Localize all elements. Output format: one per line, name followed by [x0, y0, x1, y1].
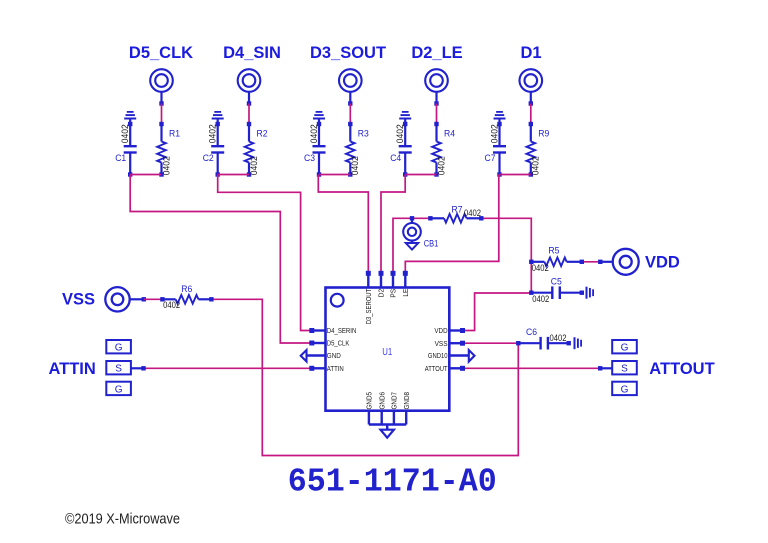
svg-text:G: G: [621, 343, 629, 354]
connector VDD: [598, 260, 602, 264]
resistor R9: [529, 122, 533, 126]
pin GND5 (U1 bottom): [368, 411, 370, 425]
svg-text:S: S: [621, 364, 628, 375]
svg-text:R1: R1: [169, 128, 180, 139]
svg-text:R7: R7: [452, 204, 463, 215]
svg-text:D3_SEROUT: D3_SEROUT: [364, 288, 373, 324]
wire VSS net loop: [211, 299, 518, 455]
wire D4_SIN to R2: [248, 104, 250, 125]
wire C2 to R2 junction: [218, 174, 249, 176]
svg-text:D4_SIN: D4_SIN: [223, 44, 281, 62]
capacitor C7: [498, 119, 500, 147]
svg-text:GND5: GND5: [365, 392, 374, 410]
svg-text:0402: 0402: [532, 263, 549, 273]
pad S (ATTOUT side): [612, 361, 637, 374]
wire U1 pin PS to R7: [393, 218, 430, 272]
ground symbol above C4: [399, 118, 411, 120]
svg-text:0402: 0402: [161, 156, 171, 175]
wire C3 to R3 junction: [319, 174, 350, 176]
pad S (ATTIN side): [106, 361, 131, 374]
IC U1 body: [326, 288, 450, 411]
resistor R5: [529, 260, 533, 264]
svg-text:C1: C1: [115, 152, 126, 163]
svg-text:0402: 0402: [489, 124, 499, 143]
wire net D4_SIN to U1 pin D4_SERIN: [218, 175, 311, 331]
wire D3_SOUT to R3: [349, 104, 351, 125]
resistor R7: [428, 216, 432, 220]
svg-text:GND8: GND8: [402, 392, 411, 410]
svg-text:C4: C4: [390, 152, 401, 163]
wire net D5_CLK to U1 pin D5_CLK: [130, 175, 311, 344]
svg-text:0402: 0402: [120, 124, 130, 143]
ground symbol above C2: [212, 118, 224, 120]
svg-text:PS: PS: [389, 289, 398, 298]
svg-text:GND6: GND6: [377, 392, 386, 410]
svg-text:ATTIN: ATTIN: [327, 364, 344, 373]
svg-text:D5_CLK: D5_CLK: [129, 44, 193, 62]
svg-text:ATTIN: ATTIN: [48, 360, 95, 378]
wire D2_LE to R4: [436, 104, 438, 125]
pin VDD (U1 right): [460, 328, 465, 333]
pin GND10 (U1 right, arrow): [449, 354, 469, 356]
svg-text:GND10: GND10: [428, 351, 448, 360]
resistor R6: [160, 297, 164, 301]
pin ATTOUT (U1 right): [460, 366, 465, 371]
svg-text:S: S: [115, 364, 122, 375]
pin ATTIN (U1 left): [309, 366, 314, 371]
svg-text:R2: R2: [257, 128, 268, 139]
svg-text:0402: 0402: [436, 156, 446, 175]
wire R5 to VDD connector: [582, 261, 601, 263]
svg-text:0402: 0402: [531, 156, 541, 175]
pad G (ATTOUT side): [612, 340, 637, 353]
wire net D1 to U1 pin LE: [405, 175, 499, 273]
svg-text:R9: R9: [538, 128, 549, 139]
svg-text:C2: C2: [203, 152, 214, 163]
svg-text:G: G: [115, 384, 123, 395]
pin D5_CLK (U1 left): [309, 341, 314, 346]
capacitor C5: [529, 291, 533, 295]
svg-text:ATTOUT: ATTOUT: [649, 360, 714, 378]
svg-text:VSS: VSS: [62, 291, 95, 309]
wire VSS to R6: [144, 298, 163, 300]
wire C7 to R9 junction: [500, 174, 531, 176]
svg-text:C6: C6: [526, 326, 537, 337]
svg-text:GND7: GND7: [390, 392, 399, 410]
capacitor C2: [217, 119, 219, 147]
svg-text:0402: 0402: [550, 333, 567, 343]
wire U1 pin VDD to R5/C5 node: [462, 293, 531, 331]
svg-text:G: G: [115, 343, 123, 354]
wire C1 to R1 junction: [130, 174, 161, 176]
lead ATTIN S pad: [131, 367, 144, 369]
wire net D2_LE to U1 pin D2: [381, 175, 405, 273]
pin PS (U1 top): [391, 271, 396, 276]
junction node VSS/C6: [516, 341, 520, 345]
wire R7 to R5/C5 node: [481, 218, 531, 292]
pin GND7 (U1 bottom): [393, 411, 395, 425]
svg-text:0402: 0402: [350, 156, 360, 175]
pad G (ATTIN side): [106, 382, 131, 395]
pin GND (U1 left, arrow): [307, 354, 326, 356]
svg-text:D5_CLK: D5_CLK: [327, 339, 350, 348]
svg-text:R4: R4: [444, 128, 455, 139]
capacitor C4: [404, 119, 406, 147]
svg-text:C3: C3: [304, 152, 315, 163]
svg-text:VDD: VDD: [645, 253, 680, 271]
svg-text:0402: 0402: [532, 294, 549, 304]
svg-text:©2019 X-Microwave: ©2019 X-Microwave: [65, 511, 180, 528]
resistor R3: [348, 122, 352, 126]
ground symbol above C1: [124, 118, 136, 120]
svg-text:D1: D1: [520, 44, 541, 62]
svg-text:651-1171-A0: 651-1171-A0: [288, 464, 497, 502]
pin GND8 (U1 bottom): [405, 411, 407, 425]
svg-text:D4_SERIN: D4_SERIN: [327, 326, 357, 335]
ground symbol below U1: [386, 425, 388, 430]
svg-text:C7: C7: [485, 152, 496, 163]
wire D1 to R9: [530, 104, 532, 125]
svg-text:U1: U1: [382, 347, 392, 358]
ground symbol above C7: [494, 118, 506, 120]
svg-text:D3_SOUT: D3_SOUT: [310, 44, 386, 62]
capacitor C3: [318, 119, 320, 147]
pin GND6 (U1 bottom): [381, 411, 383, 425]
lead ATTOUT S pad: [598, 366, 602, 370]
ground symbol above C3: [313, 118, 325, 120]
svg-text:0402: 0402: [464, 208, 481, 218]
resistor R2: [247, 122, 251, 126]
svg-text:G: G: [621, 384, 629, 395]
svg-text:D2: D2: [377, 289, 386, 298]
pad G (ATTIN side): [106, 340, 131, 353]
svg-text:CB1: CB1: [424, 238, 439, 249]
pin VSS (U1 right): [460, 341, 465, 346]
wire U1 pin ATTOUT to ATTOUT S pad: [462, 367, 600, 369]
ground symbol right of C5: [586, 287, 588, 299]
svg-text:VDD: VDD: [434, 326, 447, 335]
svg-text:D2_LE: D2_LE: [411, 44, 462, 62]
ground symbol right of C6: [574, 337, 576, 349]
svg-text:R6: R6: [181, 283, 192, 294]
svg-text:0402: 0402: [395, 124, 405, 143]
svg-text:0402: 0402: [208, 124, 218, 143]
svg-text:0402: 0402: [309, 124, 319, 143]
resistor R1: [159, 122, 163, 126]
svg-text:R3: R3: [358, 128, 369, 139]
svg-text:R5: R5: [548, 245, 559, 256]
wire C4 to R4 junction: [405, 174, 436, 176]
wire D5_CLK to R1: [161, 104, 163, 125]
capacitor C1: [129, 119, 131, 147]
wire net D3_SOUT to U1 pin D3_SEROUT: [318, 175, 368, 273]
svg-text:VSS: VSS: [435, 339, 448, 348]
pin LE (U1 top): [403, 271, 408, 276]
wire ATTIN S pad to U1 pin ATTIN: [144, 367, 312, 369]
resistor R4: [434, 122, 438, 126]
svg-text:0402: 0402: [163, 300, 180, 310]
connector CB1: [411, 218, 413, 223]
pin D4_SERIN (U1 left): [309, 328, 314, 333]
junction node CB1: [410, 216, 414, 220]
svg-text:LE: LE: [401, 289, 410, 297]
pin D3_SEROUT (U1 top): [366, 271, 371, 276]
wire GND bus below U1: [369, 423, 406, 425]
svg-text:GND: GND: [327, 351, 341, 360]
svg-text:ATTOUT: ATTOUT: [425, 364, 448, 373]
pad G (ATTOUT side): [612, 382, 637, 395]
svg-text:0402: 0402: [249, 156, 259, 175]
svg-text:C5: C5: [551, 276, 562, 287]
capacitor C6: [518, 342, 540, 344]
pin-1 indicator U1: [331, 294, 344, 307]
pin D2 (U1 top): [379, 271, 384, 276]
